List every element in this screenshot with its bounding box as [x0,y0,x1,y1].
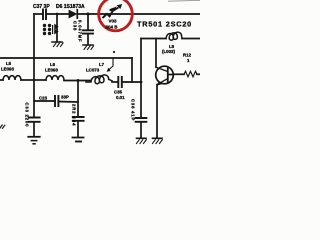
wire C23 line right [59,101,78,104]
wire diode to right edge [78,13,200,15]
variable inductor arrow L7 [107,58,114,72]
wire L7 to C35 [112,81,118,83]
wire left vertical bus [33,14,35,117]
svg-text:LE093: LE093 [45,68,58,73]
capacitor C37 [43,10,46,20]
svg-text:2R2: 2R2 [72,104,77,114]
ground earth under C33 [28,137,39,144]
svg-text:C35: C35 [114,90,123,95]
wire L6 to L7 [64,80,90,82]
wire C34 to ground [77,122,79,137]
transistor TR501 [156,66,174,85]
inductor L5 [0,76,34,80]
smudge top-right edge [168,0,200,2]
junction node at IFT tap [56,13,59,16]
capacitor C38 [83,30,93,33]
inductor L8 [166,32,182,40]
svg-text:41P: 41P [131,111,136,121]
ground chassis under C36 [137,138,147,143]
capacitor C38 branch wire [87,14,89,30]
wire C35 to vertical [123,81,142,83]
node dot near rail [113,51,115,53]
wire C33 to ground [33,123,35,137]
svg-text:TR501 2SC20: TR501 2SC20 [137,20,192,29]
svg-text:C33: C33 [25,103,30,113]
edge mark bottom-left [0,125,5,128]
capacitor C34 [73,117,84,121]
ground earth under C34 [73,138,84,142]
ground chassis under emitter [153,138,163,143]
svg-text:LC073: LC073 [86,68,100,73]
svg-text:2200: 2200 [25,115,30,128]
svg-text:L6: L6 [50,62,56,67]
wire collector drop [155,39,157,68]
svg-text:C34: C34 [72,116,77,126]
wire top rail left segment [34,13,42,15]
IFT core chevrons [55,25,58,34]
wire rail corner down to C35 line [131,58,133,82]
junction node C34 tap [77,79,80,82]
ground chassis under C38 [83,45,94,50]
ground chassis under coil [52,42,63,47]
svg-text:LE093: LE093 [1,67,14,72]
wire mid rail [0,57,132,59]
svg-text:R12: R12 [183,53,192,58]
wire C37 to diode [47,13,70,15]
capacitor C33 [29,118,40,122]
svg-text:0.01: 0.01 [116,95,125,100]
wire C36 branch vertical [140,39,142,118]
resistor R12 [184,71,197,77]
junction node at C38 tap [86,12,89,15]
wire C36 to ground [140,123,142,138]
svg-text:304 B: 304 B [106,25,119,30]
svg-text:0.047MF: 0.047MF [78,20,83,42]
wire down to IFT coil [56,14,58,42]
svg-text:V03: V03 [109,19,118,24]
wire L5 to L6 [34,79,46,81]
junction node at C36 line [140,81,143,84]
wire C34 branch vertical [77,81,79,117]
capacitor C35 [118,77,122,87]
inductor L6 [46,76,64,80]
IFT coil T1 winding blobs [43,24,53,35]
wire L8 top line [141,38,166,40]
highlight circle red [99,0,133,31]
diode D6 [69,10,77,18]
svg-text:C37 3P: C37 3P [33,4,50,10]
svg-text:L7: L7 [99,62,105,67]
wire C23 line left [34,100,54,102]
inductor L7 loops [86,75,112,84]
wire R12 to right edge [197,73,200,75]
capacitor C23 [55,96,58,106]
wire base to R12 [173,73,184,75]
wire emitter to ground [156,85,158,138]
wire L8 to right edge [182,38,200,40]
svg-text:D6 1S1873A: D6 1S1873A [56,4,85,10]
correction squiggle [103,4,123,18]
wire C38 to ground [87,35,89,45]
svg-text:L5: L5 [6,61,12,66]
capacitor C36 [136,118,147,122]
svg-text:(L003): (L003) [162,49,175,54]
svg-text:33P: 33P [61,95,69,100]
svg-text:C23: C23 [39,96,48,101]
svg-text:C36: C36 [131,99,136,109]
